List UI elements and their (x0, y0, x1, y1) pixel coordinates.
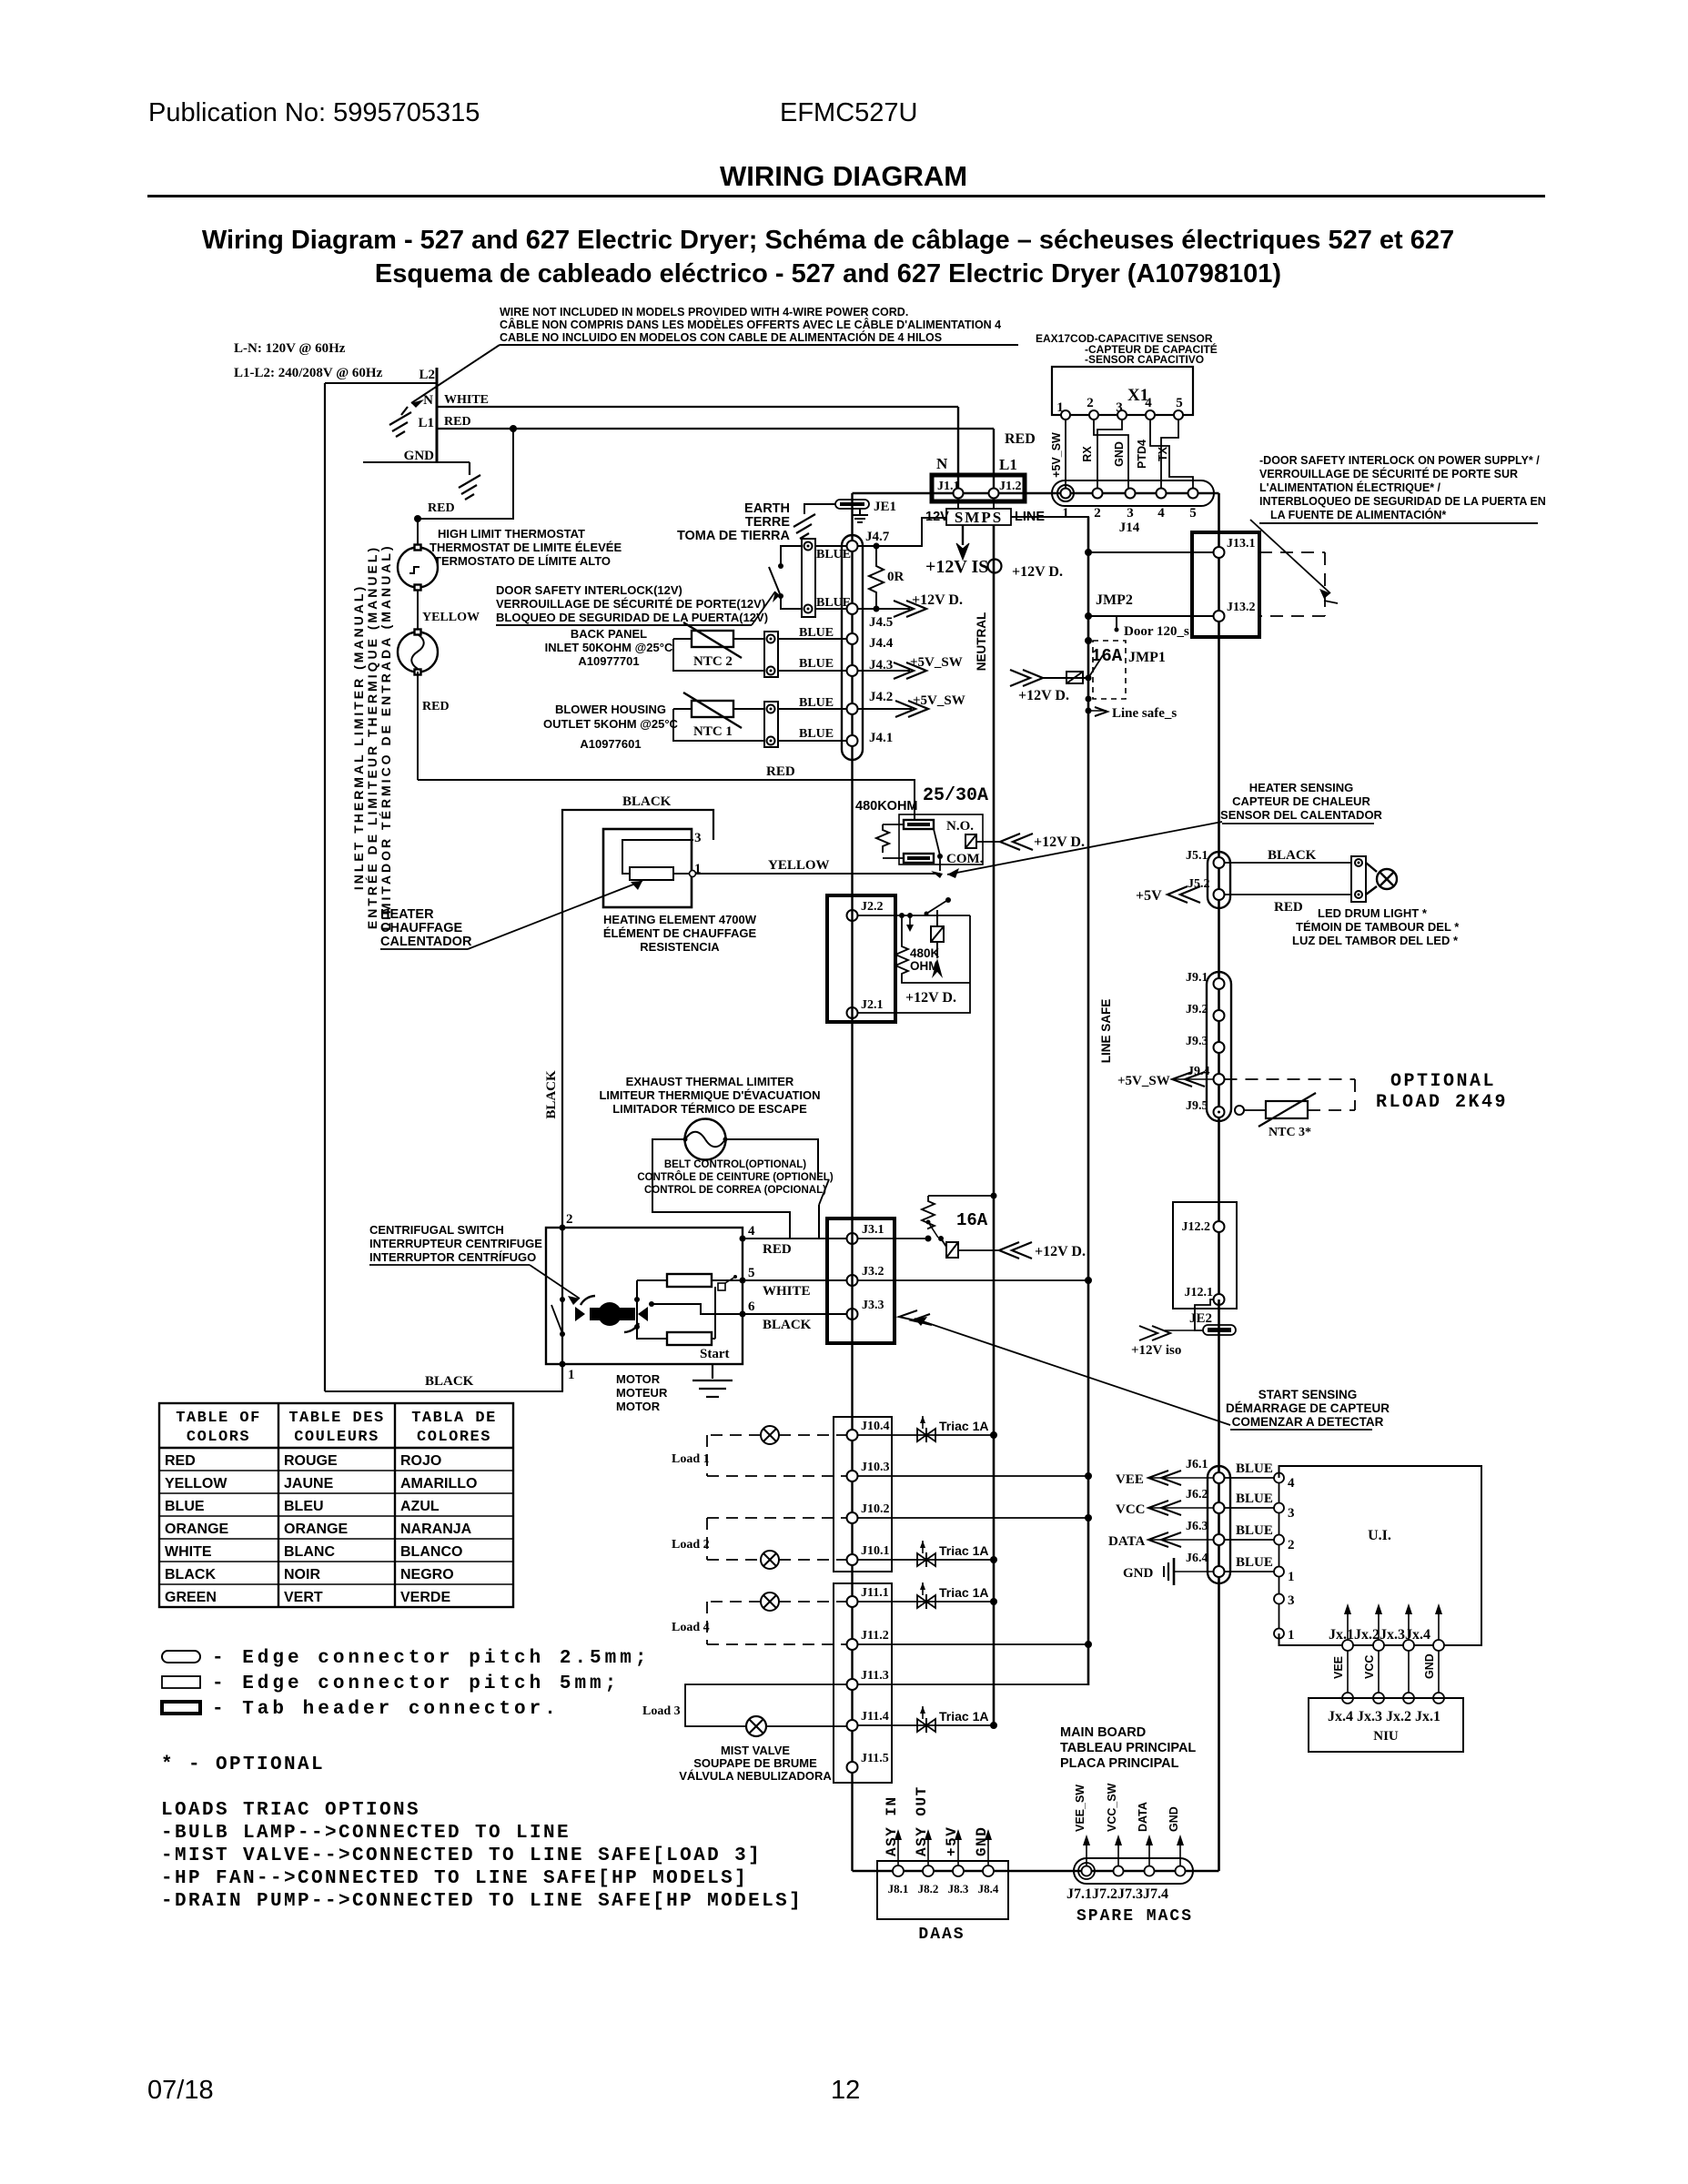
X1 pin numbers (1056, 396, 1183, 415)
pin J6.2 (1214, 1502, 1225, 1513)
svg-text:SOUPAPE DE BRUME: SOUPAPE DE BRUME (693, 1756, 817, 1770)
svg-text:J11.4: J11.4 (861, 1710, 889, 1724)
start winding (667, 1332, 712, 1345)
load1 lamp (761, 1426, 779, 1444)
UI pin column (1279, 1478, 1280, 1633)
svg-text:J10.1: J10.1 (861, 1544, 890, 1558)
pin J3.3 (847, 1309, 858, 1319)
NEUTRAL rail (993, 525, 996, 1725)
pointer heater to element (468, 881, 642, 949)
labels J8.x (888, 1882, 999, 1896)
svg-text:BLUE: BLUE (799, 696, 834, 710)
svg-text:J8.4: J8.4 (978, 1882, 999, 1896)
label 480K OHM (910, 946, 940, 973)
svg-text:CONTROL DE CORREA (OPCIONAL): CONTROL DE CORREA (OPCIONAL) (644, 1185, 826, 1196)
motor outer box (546, 1228, 743, 1364)
svg-text:AZUL: AZUL (400, 1499, 440, 1514)
svg-text:BLACK: BLACK (622, 794, 672, 809)
pin J9.3 (1214, 1042, 1225, 1053)
heating element bar (630, 867, 673, 880)
svg-text:J6.3: J6.3 (1186, 1520, 1208, 1533)
pin J11.5 (847, 1762, 858, 1773)
svg-text:LIMITADOR TÉRMICO DE ENTRADA (: LIMITADOR TÉRMICO DE ENTRADA (MANUAL) (379, 543, 393, 930)
start sensing arrow at J3.3 (899, 1310, 932, 1325)
rotated net labels X1-J14 (1050, 432, 1169, 478)
wire X1.4 to J14.5 (1150, 420, 1193, 488)
spark gap arrow (932, 958, 943, 978)
pin J4.5 (847, 603, 858, 614)
label door safety interlock on power supply (1259, 454, 1546, 523)
IEC ground below JE1 (852, 509, 868, 522)
wire J2.1 loop right (858, 915, 971, 1013)
svg-text:LIMITEUR THERMIQUE D'ÉVACUATIO: LIMITEUR THERMIQUE D'ÉVACUATION (599, 1088, 820, 1102)
svg-text:12: 12 (831, 2076, 860, 2105)
svg-text:L'ALIMENTATION ÉLECTRIQUE* /: L'ALIMENTATION ÉLECTRIQUE* / (1259, 480, 1441, 494)
svg-text:COLORES: COLORES (417, 1429, 491, 1446)
label blower housing NTC1 (543, 703, 678, 751)
Line safe_s arrow (1086, 706, 1178, 721)
svg-text:BLUE: BLUE (165, 1499, 205, 1514)
pin J3.1 (847, 1233, 858, 1244)
svg-text:J4.7: J4.7 (865, 530, 890, 544)
wire door to J4.7 (815, 545, 847, 547)
svg-text:+5V_SW: +5V_SW (910, 655, 963, 670)
svg-text:NEUTRAL: NEUTRAL (975, 612, 988, 672)
svg-text:ROUGE: ROUGE (284, 1453, 338, 1469)
svg-text:J13.2: J13.2 (1227, 601, 1256, 614)
winding switch (718, 1275, 737, 1290)
svg-text:BLUE: BLUE (1236, 1523, 1273, 1538)
svg-text:BLUE: BLUE (1236, 1461, 1273, 1476)
JE1 edge connector (835, 500, 869, 509)
load2 dashed wires (707, 1518, 847, 1560)
J14 pin numbers (1062, 506, 1197, 521)
svg-text:CAPTEUR DE CHALEUR: CAPTEUR DE CHALEUR (1232, 794, 1370, 808)
pin J7.1 (1082, 1866, 1092, 1876)
arrow +5V_SW at J9.4 (1117, 1072, 1213, 1088)
connector J10 box (834, 1417, 892, 1572)
wire J11.3 corner to LINE rail (858, 1644, 1089, 1684)
svg-text:WIRE NOT INCLUDED IN MODELS PR: WIRE NOT INCLUDED IN MODELS PROVIDED WIT… (500, 306, 908, 318)
svg-text:Wiring Diagram - 527 and 627 E: Wiring Diagram - 527 and 627 Electric Dr… (202, 226, 1454, 255)
resistor 480K (895, 915, 970, 983)
load2 lamp (761, 1551, 779, 1569)
start sensing pointer diagonal (915, 1319, 1230, 1425)
svg-text:L-N: 120V @ 60Hz: L-N: 120V @ 60Hz (234, 341, 346, 356)
connector J13 box (1192, 532, 1259, 637)
triac J10.4 (858, 1416, 998, 1442)
svg-text:0R: 0R (887, 570, 905, 584)
svg-text:BLUE: BLUE (1236, 1491, 1273, 1506)
svg-text:BLANCO: BLANCO (400, 1544, 462, 1560)
pin J8.4 (983, 1865, 994, 1876)
mist valve lamp (746, 1716, 766, 1736)
svg-text:HEATER SENSING: HEATER SENSING (1249, 781, 1354, 794)
svg-text:1: 1 (694, 862, 702, 876)
junction J2.2 wire (907, 913, 913, 918)
legend stadium symbol (162, 1651, 200, 1663)
junction LINE at JMP2 (1085, 612, 1092, 620)
connector J7 stadium (1074, 1858, 1193, 1884)
pin J10.2 (847, 1512, 858, 1523)
svg-text:Esquema de cableado eléctrico: Esquema de cableado eléctrico - 527 and … (375, 259, 1281, 288)
svg-text:GND: GND (1167, 1806, 1180, 1832)
svg-text:BLACK: BLACK (165, 1567, 216, 1582)
svg-text:VERDE: VERDE (400, 1590, 450, 1605)
svg-text:GND: GND (404, 449, 435, 463)
fuse symbol (1066, 672, 1083, 683)
svg-text:RED: RED (444, 415, 471, 429)
svg-text:U.I.: U.I. (1368, 1528, 1391, 1543)
relay coil resistor (876, 824, 889, 853)
svg-text:SENSOR DEL CALENTADOR: SENSOR DEL CALENTADOR (1220, 808, 1383, 822)
wire NTC2 to J4.3 (778, 670, 847, 672)
rotated labels VEE_SW etc (1074, 1783, 1180, 1832)
pin J11.2 (847, 1639, 858, 1650)
rail through J5 to J9 (1218, 853, 1220, 1202)
svg-text:1: 1 (568, 1368, 575, 1382)
pin J6.3 (1214, 1534, 1225, 1545)
wire J12.1 to JE2 (1195, 1299, 1214, 1330)
svg-text:J4.5: J4.5 (869, 615, 893, 630)
svg-text:3: 3 (1288, 1593, 1295, 1608)
svg-text:YELLOW: YELLOW (768, 858, 830, 873)
svg-text:L1: L1 (999, 456, 1017, 473)
Jx pins on UI bottom (1342, 1640, 1353, 1651)
DAAS box (877, 1861, 1008, 1919)
svg-text:+12V D.: +12V D. (912, 592, 963, 608)
svg-text:J12.2: J12.2 (1182, 1220, 1211, 1234)
svg-text:J9.2: J9.2 (1186, 1003, 1208, 1016)
wire BLACK heater top (562, 810, 713, 1391)
pin J14.1 (1061, 489, 1071, 499)
svg-text:COM.: COM. (946, 852, 984, 866)
svg-text:DATA: DATA (1137, 1802, 1149, 1832)
J4 center rail through pins (851, 535, 853, 895)
pin J8.2 (923, 1865, 934, 1876)
VCC arrow J6.2 (1116, 1501, 1213, 1517)
svg-text:J9.5: J9.5 (1186, 1099, 1208, 1113)
wire J1 line down to JE1 column (851, 493, 853, 535)
svg-text:CONTRÔLE DE CEINTURE (OPTIONEL: CONTRÔLE DE CEINTURE (OPTIONEL) (637, 1171, 833, 1183)
note: wire not included text (500, 306, 1018, 345)
svg-text:INLET THERMAL LIMITER (MANUAL): INLET THERMAL LIMITER (MANUAL) (351, 584, 366, 890)
svg-text:+12V D.: +12V D. (1018, 688, 1069, 703)
wire RED L1 (437, 428, 994, 430)
junction motor bottom (560, 1361, 566, 1368)
pin J14.1 outer (1057, 485, 1074, 501)
label high limit thermostat (430, 527, 622, 568)
relay contact N.O. (904, 820, 934, 829)
junction motor top (560, 1225, 566, 1231)
wire J3.2 to LINE rail (858, 1279, 1089, 1281)
svg-text:BLUE: BLUE (1236, 1555, 1273, 1570)
wire J6.1 BLUE to UI pin4 (1225, 1477, 1275, 1479)
svg-text:J2.2: J2.2 (861, 900, 884, 914)
door switch arrow diagonal (1250, 520, 1338, 603)
wire yellow between thermostats (417, 590, 419, 632)
svg-text:VCC_SW: VCC_SW (1106, 1783, 1118, 1832)
wire pin6 BLACK to J3.3 (743, 1313, 847, 1315)
arrow +12VD to fuse (1010, 670, 1043, 686)
relay coil wires (883, 824, 904, 858)
label MOTOR MOTEUR MOTOR (616, 1372, 668, 1413)
centrifugal contacts (560, 1297, 565, 1302)
svg-text:+5V: +5V (944, 1826, 960, 1856)
belt control switch wire (725, 1139, 818, 1178)
wire pin4 RED to J3.1 (743, 1238, 847, 1239)
svg-text:LINE SAFE: LINE SAFE (1099, 999, 1113, 1064)
svg-text:MOTOR: MOTOR (616, 1400, 661, 1413)
pin J7.2 (1114, 1866, 1124, 1876)
rail from J14 to J13 (1218, 493, 1220, 853)
svg-text:DÉMARRAGE DE CAPTEUR: DÉMARRAGE DE CAPTEUR (1226, 1401, 1390, 1415)
pin J7.1 outer (1078, 1863, 1095, 1879)
pin J7.3 (1145, 1866, 1155, 1876)
svg-text:TÉMOIN DE TAMBOUR DEL *: TÉMOIN DE TAMBOUR DEL * (1296, 920, 1460, 934)
NTC2 connector 5mm (764, 632, 778, 677)
svg-text:4: 4 (1157, 506, 1165, 521)
pin J2.2 (847, 910, 858, 921)
label back panel NTC2 (545, 627, 673, 668)
svg-text:Jx.1Jx.2Jx.3Jx.4: Jx.1Jx.2Jx.3Jx.4 (1329, 1627, 1430, 1643)
start sensing underline (1230, 1429, 1372, 1431)
svg-text:VEE: VEE (1116, 1472, 1144, 1487)
svg-text:Load 2: Load 2 (672, 1538, 710, 1552)
svg-text:5: 5 (1189, 506, 1197, 521)
svg-text:JE2: JE2 (1189, 1311, 1212, 1326)
svg-text:-MIST VALVE-->CONNECTED TO LIN: -MIST VALVE-->CONNECTED TO LINE SAFE[LOA… (161, 1845, 762, 1866)
JE2 edge connector (1203, 1325, 1236, 1335)
svg-text:INTERRUPTEUR CENTRIFUGE: INTERRUPTEUR CENTRIFUGE (369, 1237, 542, 1250)
svg-text:J5.2: J5.2 (1188, 877, 1210, 891)
svg-text:BLOQUEO DE SEGURIDAD DE LA PUE: BLOQUEO DE SEGURIDAD DE LA PUERTA(12V) (496, 611, 768, 624)
svg-text:HEATER: HEATER (380, 907, 434, 922)
arrow 12V ISO below SMPS (956, 525, 969, 560)
svg-text:Jx.4 Jx.3 Jx.2 Jx.1: Jx.4 Jx.3 Jx.2 Jx.1 (1328, 1709, 1440, 1724)
svg-text:16A: 16A (1091, 646, 1123, 666)
svg-text:EARTH: EARTH (744, 501, 790, 516)
svg-text:NTC 2: NTC 2 (693, 654, 733, 669)
pin J5.2 (1214, 889, 1225, 900)
connector J2 box (827, 895, 895, 1022)
svg-text:TABLEAU PRINCIPAL: TABLEAU PRINCIPAL (1060, 1741, 1196, 1755)
svg-text:J3.3: J3.3 (862, 1299, 884, 1312)
svg-text:480K: 480K (910, 946, 940, 960)
LINE rail vertical (1087, 517, 1090, 1685)
svg-text:CHAUFFAGE: CHAUFFAGE (380, 921, 463, 935)
svg-text:VEE: VEE (1332, 1656, 1345, 1679)
varistor J2 (931, 910, 944, 958)
svg-text:AMARILLO: AMARILLO (400, 1476, 477, 1491)
NIU pins (1342, 1693, 1353, 1704)
heating element inner loop (622, 840, 693, 874)
svg-text:GND: GND (1423, 1653, 1436, 1679)
wire GND (363, 461, 470, 463)
svg-text:START SENSING: START SENSING (1258, 1388, 1358, 1401)
pin J2.1 (847, 1007, 858, 1018)
NIU box (1309, 1698, 1463, 1752)
svg-text:3: 3 (694, 831, 702, 845)
motor inner box (637, 1280, 667, 1339)
circle O of ISO on neutral (988, 560, 1002, 573)
svg-text:RED: RED (422, 700, 450, 713)
svg-text:5: 5 (748, 1266, 755, 1280)
svg-text:+12V D.: +12V D. (1012, 564, 1063, 580)
wire white drop to J1.1 (957, 407, 959, 488)
belt control bypass wire (652, 1139, 790, 1239)
rotated label inlet thermal limiter (351, 543, 393, 930)
svg-text:ORANGE: ORANGE (165, 1522, 229, 1537)
wire J6.4 BLUE to UI pin1 (1225, 1571, 1275, 1572)
svg-text:+12V iso: +12V iso (1131, 1343, 1181, 1358)
wire J6.2 BLUE to UI pin3 (1225, 1507, 1275, 1509)
svg-text:INLET 50KOHM @25°C: INLET 50KOHM @25°C (545, 641, 673, 654)
connector J11 box (834, 1583, 892, 1783)
arrow +12VD 16A (999, 1242, 1032, 1259)
svg-text:Door 120_s: Door 120_s (1124, 624, 1189, 639)
relay 25/30A box (899, 814, 983, 864)
svg-text:ÉLÉMENT DE CHAUFFAGE: ÉLÉMENT DE CHAUFFAGE (603, 926, 757, 940)
svg-text:TABLA DE: TABLA DE (411, 1410, 497, 1427)
svg-text:BLOWER HOUSING: BLOWER HOUSING (555, 703, 666, 716)
svg-text:- Edge connector pitch 2.5mm;: - Edge connector pitch 2.5mm; (212, 1648, 650, 1669)
wire rail to J13.1 (1088, 551, 1213, 553)
svg-text:BLACK: BLACK (544, 1070, 559, 1119)
header rule (147, 195, 1545, 197)
svg-text:J8.2: J8.2 (918, 1882, 939, 1896)
svg-text:J12.1: J12.1 (1185, 1286, 1214, 1299)
wire NTC2 to J4.4 (778, 638, 847, 640)
wire pin5 WHITE to J3.2 (743, 1279, 847, 1281)
pin J8.3 (953, 1865, 964, 1876)
pin J4.4 (847, 633, 858, 644)
connector J4 stadium (842, 535, 863, 760)
svg-text:COULEURS: COULEURS (294, 1429, 379, 1446)
svg-text:MOTEUR: MOTEUR (616, 1386, 668, 1400)
svg-text:NEGRO: NEGRO (400, 1567, 454, 1582)
junction line safe top (1085, 637, 1092, 644)
wire NTC1 to J4.1 (778, 740, 847, 742)
svg-text:VÁLVULA NEBULIZADORA: VÁLVULA NEBULIZADORA (679, 1769, 832, 1783)
svg-text:6: 6 (748, 1299, 755, 1314)
wire LINE from SMPS to rail (1011, 517, 1088, 552)
svg-text:1: 1 (1062, 506, 1069, 521)
inlet thermal limiter circle (398, 630, 438, 675)
relay com drop to yellow (939, 859, 941, 871)
label main board (1060, 1725, 1196, 1771)
svg-text:BLUE: BLUE (799, 657, 834, 671)
J7 up arrows (1087, 1838, 1180, 1865)
wire J11.2 to LINE rail (858, 1643, 1089, 1645)
arrow +12VD relay (1000, 834, 1033, 850)
pin J13.1 (1214, 547, 1225, 558)
svg-text:J4.4: J4.4 (869, 636, 894, 651)
svg-text:LA FUENTE DE ALIMENTACIÓN*: LA FUENTE DE ALIMENTACIÓN* (1270, 508, 1446, 521)
svg-text:NTC 3*: NTC 3* (1269, 1126, 1311, 1139)
load1 dashed wires (707, 1435, 847, 1476)
legend tab symbol (162, 1702, 200, 1714)
heater sensing pointer diagonal (947, 822, 1222, 875)
pin J12.1 (1214, 1294, 1225, 1305)
connector J12 box (1173, 1202, 1237, 1309)
svg-text:DOOR SAFETY INTERLOCK(12V): DOOR SAFETY INTERLOCK(12V) (496, 583, 682, 597)
pin J9.1 (1214, 978, 1225, 989)
svg-text:NIU: NIU (1373, 1729, 1399, 1744)
wire red down to thermostat (417, 519, 419, 547)
pin J10.1 (847, 1554, 858, 1565)
NTC2 loop wires (673, 639, 764, 671)
svg-text:5: 5 (1176, 396, 1183, 410)
svg-text:SPARE MACS: SPARE MACS (1076, 1907, 1193, 1926)
door connector 5mm (802, 539, 815, 617)
door switch (769, 546, 801, 609)
start sensing arrowhead (915, 1317, 927, 1326)
svg-text:JMP1: JMP1 (1128, 650, 1166, 665)
svg-text:BLACK: BLACK (425, 1374, 474, 1389)
svg-text:BLEU: BLEU (284, 1499, 324, 1514)
svg-text:VERT: VERT (284, 1590, 323, 1605)
svg-text:J2.1: J2.1 (861, 998, 884, 1012)
svg-text:LIMITADOR TÉRMICO DE ESCAPE: LIMITADOR TÉRMICO DE ESCAPE (612, 1102, 807, 1116)
connector J9 stadium (1207, 972, 1231, 1121)
wire X1.5 to J14.4 (1161, 420, 1178, 488)
16A fuse out wire (958, 1249, 999, 1251)
svg-text:VCC: VCC (1363, 1655, 1376, 1679)
svg-text:Load 3: Load 3 (642, 1704, 681, 1718)
svg-text:VEE_SW: VEE_SW (1074, 1785, 1087, 1832)
wire J1.2 to SMPS (993, 501, 995, 509)
rail through J12 (1218, 1202, 1220, 1299)
svg-text:BLUE: BLUE (799, 626, 834, 640)
svg-text:BLUE: BLUE (816, 548, 851, 561)
svg-text:BACK PANEL: BACK PANEL (571, 627, 647, 641)
led lamp (1366, 863, 1397, 895)
svg-text:SMPS: SMPS (955, 509, 1003, 526)
svg-text:J6.4: J6.4 (1186, 1552, 1208, 1565)
svg-text:Load 4: Load 4 (672, 1621, 710, 1634)
dashed JMP1 box (1093, 641, 1126, 699)
pin J1.1 (954, 489, 964, 499)
svg-text:YELLOW: YELLOW (422, 611, 480, 624)
svg-text:Triac 1A: Triac 1A (939, 1709, 988, 1724)
wire J10.3 to LINE rail (858, 1475, 1089, 1477)
wire WHITE (437, 406, 958, 408)
load3 solid loop (685, 1684, 847, 1726)
pin J14.4 (1157, 489, 1167, 499)
wire J4.2 +5V_SW (858, 708, 913, 710)
arrow +12VD on J4.5 (894, 601, 926, 617)
svg-text:2: 2 (1087, 396, 1094, 410)
svg-text:INTERBLOQUEO DE SEGURIDAD DE L: INTERBLOQUEO DE SEGURIDAD DE LA PUERTA E… (1259, 495, 1546, 508)
relay com arrowhead (931, 871, 943, 878)
svg-text:2: 2 (566, 1212, 573, 1227)
svg-text:JMP2: JMP2 (1096, 592, 1133, 608)
svg-text:OUTLET 5KOHM @25°C: OUTLET 5KOHM @25°C (543, 717, 678, 731)
junction 0R bottom (874, 606, 880, 612)
NTC1 connector 5mm (764, 702, 778, 747)
thermostat HIGH LIMIT circle (398, 545, 438, 591)
svg-text:J9.3: J9.3 (1186, 1035, 1208, 1048)
svg-text:J7.1J7.2J7.3J7.4: J7.1J7.2J7.3J7.4 (1066, 1886, 1168, 1902)
label heating element 4700w (603, 913, 757, 954)
pin J8.1 (893, 1865, 904, 1876)
svg-text:J9.1: J9.1 (1186, 971, 1208, 985)
pin J9.2 (1214, 1010, 1225, 1021)
test tick below J2.2 wire (906, 915, 914, 932)
pin J6.4 (1214, 1566, 1225, 1577)
svg-text:+12V D.: +12V D. (905, 990, 956, 1006)
